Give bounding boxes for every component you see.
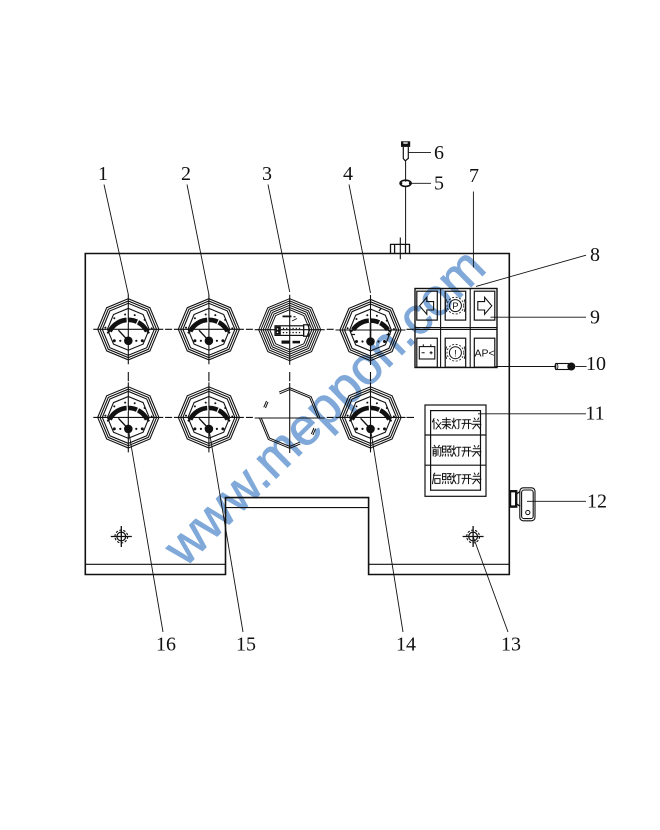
- panel outline: [85, 254, 509, 575]
- leader line 10 left part: [496, 366, 557, 368]
- switch label box inner: [431, 411, 481, 491]
- switch label box dividers: [425, 435, 486, 465]
- leader line 6: [408, 151, 431, 153]
- leader line 4: [349, 185, 371, 294]
- button bottom-middle (brake warning): [445, 338, 466, 367]
- screw 6: [401, 141, 410, 161]
- switch label text row 1: instrument light switch: [432, 418, 481, 429]
- leader line 3: [268, 185, 290, 293]
- svg-text:6: 6: [434, 142, 444, 164]
- gauge 15 (meter, row2 col2): [178, 387, 239, 448]
- gauge 4 (voltmeter, row1 col4): [340, 299, 401, 360]
- svg-text:1: 1: [98, 163, 108, 185]
- svg-text:4: 4: [343, 163, 353, 185]
- leader line 1: [104, 185, 128, 295]
- svg-text:14: 14: [396, 634, 416, 656]
- centerline dashes: [128, 329, 414, 417]
- button bottom-left (battery): [417, 338, 438, 367]
- panel bottom lip line right: [369, 563, 510, 565]
- mounting screw right (13): [463, 526, 484, 547]
- svg-text:13: 13: [501, 634, 521, 656]
- crosshair gauge 4: [336, 295, 406, 365]
- svg-text:7: 7: [469, 165, 479, 187]
- svg-text:9: 9: [590, 307, 600, 329]
- leader line 11: [478, 413, 586, 415]
- screw centerline: [405, 161, 407, 244]
- leader line 5: [411, 182, 431, 184]
- switch label text row 3: rear light switch: [432, 473, 481, 484]
- svg-text:!: !: [454, 348, 457, 359]
- crosshair gauge 15: [174, 382, 244, 452]
- crosshair gauge 2: [174, 294, 244, 364]
- switch label box outer: [425, 405, 486, 496]
- svg-text:11: 11: [585, 403, 604, 425]
- svg-text:10: 10: [586, 353, 606, 375]
- leader line 7: [472, 192, 474, 268]
- washer 5: [400, 180, 412, 186]
- mounting screw left (13): [111, 526, 132, 547]
- leader line 2: [187, 185, 209, 295]
- crosshair gauge 16: [93, 382, 163, 452]
- notch inner line: [226, 507, 369, 509]
- top mounting bracket: [391, 238, 410, 260]
- gauge 3 (hour meter, row1 col3): [259, 299, 321, 361]
- button cluster outer frame: [415, 289, 497, 368]
- leader line 15: [209, 429, 243, 632]
- gauge 2 (meter, row1 col2): [178, 299, 239, 360]
- leader line 14: [371, 429, 404, 632]
- svg-text:12: 12: [587, 491, 607, 513]
- gauge 14 (meter, row2 col4): [340, 387, 401, 448]
- crosshair spare gauge position: [255, 383, 325, 453]
- leader line 13: [473, 537, 508, 633]
- gauge 1 (meter, row1 col1): [98, 299, 159, 360]
- svg-text:AP<: AP<: [475, 348, 495, 360]
- leader line 10 right part: [576, 366, 587, 368]
- svg-text:16: 16: [156, 634, 176, 656]
- button top-middle (parking brake P): [445, 291, 466, 320]
- panel bottom lip line left: [85, 563, 225, 565]
- key switch 12: [510, 488, 535, 521]
- leader line 8: [476, 255, 586, 286]
- svg-text:5: 5: [434, 173, 444, 195]
- crosshair gauge 14: [336, 382, 406, 452]
- button cluster grid lines: [415, 289, 497, 368]
- leader line 12: [527, 500, 586, 502]
- spare gauge dashed octagon: [259, 388, 320, 449]
- crosshair gauge 3: [255, 295, 325, 365]
- button top-right (right turn arrow): [474, 291, 495, 320]
- button bottom-right (AP): [474, 338, 495, 367]
- leader line 16: [128, 429, 163, 632]
- svg-text:15: 15: [236, 634, 256, 656]
- leader line 9: [491, 316, 587, 318]
- svg-text:2: 2: [181, 163, 191, 185]
- crosshair gauge 1: [93, 294, 163, 364]
- switch label text row 2: headlight switch: [432, 445, 481, 456]
- svg-text:P: P: [452, 301, 458, 312]
- svg-text:3: 3: [262, 163, 272, 185]
- screw 10 (side view): [555, 363, 575, 371]
- button top-left (left turn arrow): [417, 291, 438, 320]
- gauge 16 (meter, row2 col1): [98, 387, 159, 448]
- svg-text:8: 8: [590, 244, 600, 266]
